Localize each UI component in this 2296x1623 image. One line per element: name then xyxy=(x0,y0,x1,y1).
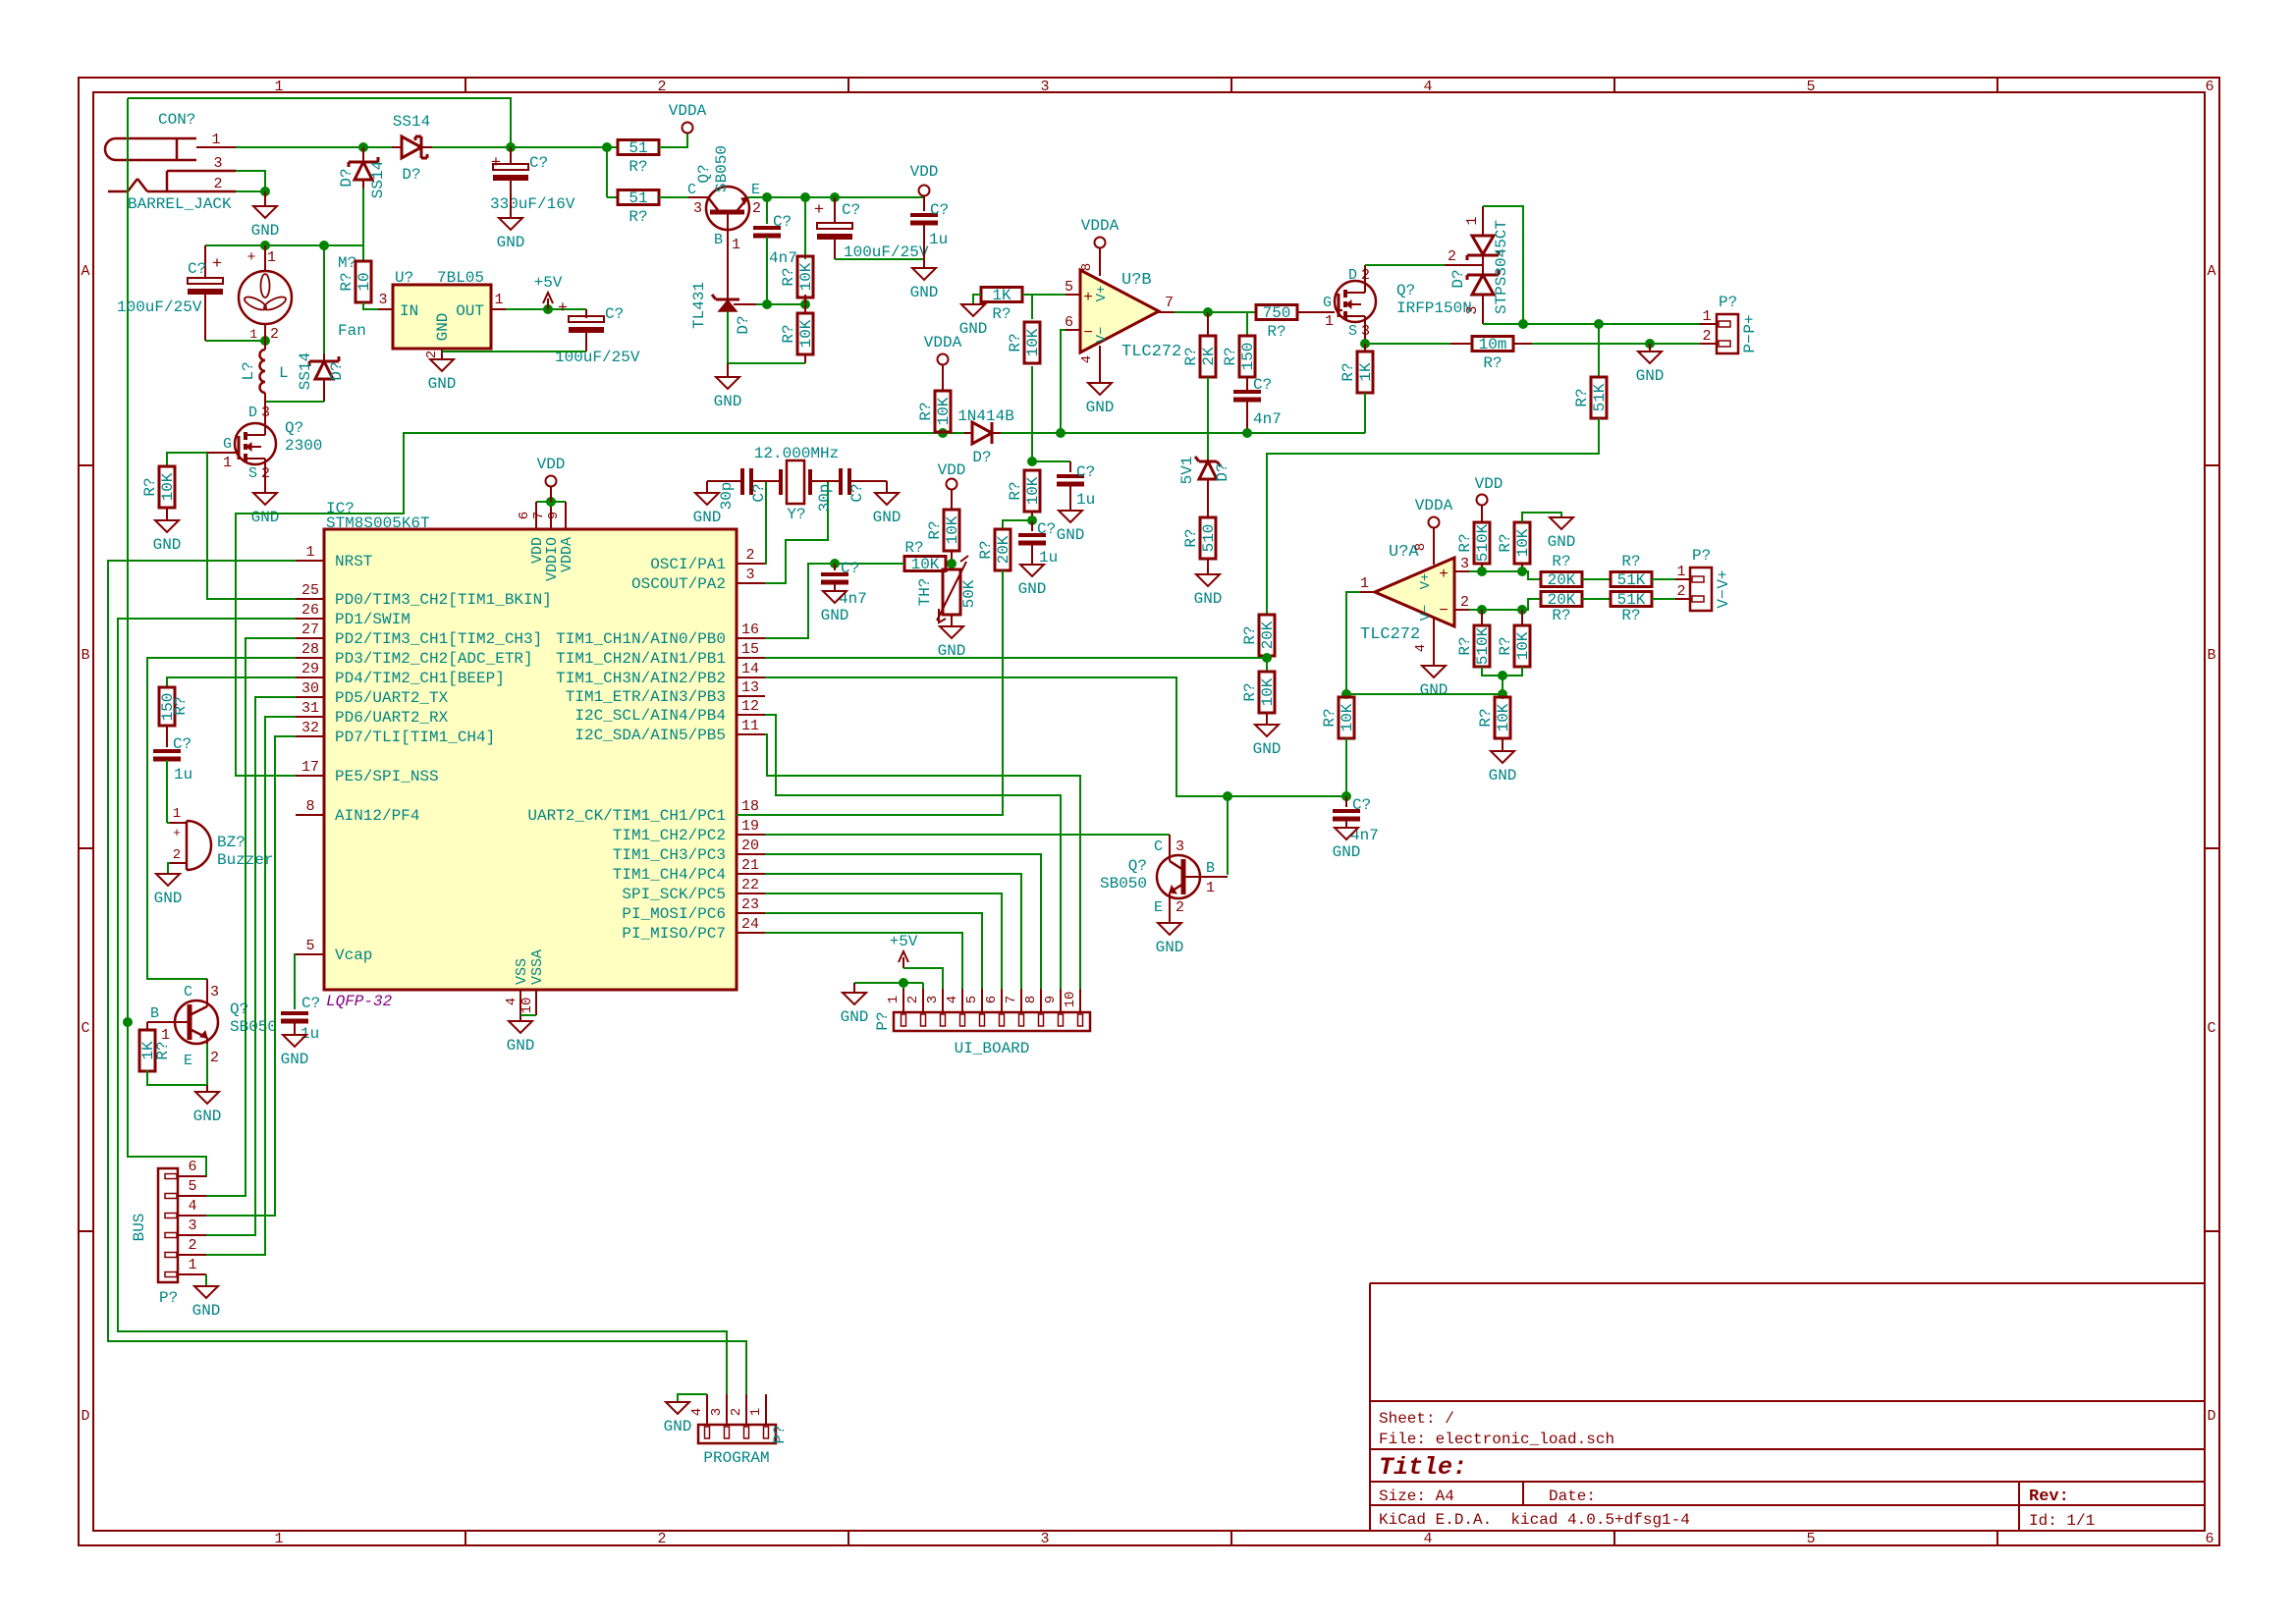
resistor R? 10K set filter xyxy=(1031,433,1033,461)
svg-text:TH?: TH? xyxy=(916,578,934,607)
svg-text:PD1/SWIM: PD1/SWIM xyxy=(335,611,410,628)
wire OSCI to crystal xyxy=(751,481,766,564)
connector P? PROGRAM xyxy=(698,1425,776,1443)
pin 6 UI_BOARD xyxy=(1001,989,1003,1012)
wire U?A output to feedback xyxy=(1346,592,1503,694)
svg-text:C: C xyxy=(687,182,696,198)
wire regulator output +5V xyxy=(506,308,586,310)
capacitor C? 1u filter xyxy=(1069,461,1071,472)
svg-text:GND: GND xyxy=(1333,843,1361,861)
pin 11 I2C_SDA/AIN5/PB5 xyxy=(737,733,765,735)
svg-text:Fan: Fan xyxy=(338,322,366,340)
wire shunt to P- pin xyxy=(1532,343,1700,345)
frame column ticks xyxy=(465,78,466,92)
capacitor C? 100uF/25V output xyxy=(585,309,587,318)
ground sense cap xyxy=(823,591,847,603)
svg-text:E: E xyxy=(1154,899,1163,916)
resistor R? 10K upper divider xyxy=(804,197,806,259)
svg-text:2: 2 xyxy=(1448,248,1456,265)
motor M? Fan xyxy=(239,271,292,324)
pin 26 PD1/SWIM xyxy=(296,618,324,620)
ground 10K upper xyxy=(1522,513,1561,522)
wire source to sense xyxy=(1364,322,1366,344)
ground Q2300 source xyxy=(264,464,266,493)
svg-text:750: 750 xyxy=(1263,304,1291,322)
node rail-cap junction xyxy=(506,142,516,152)
svg-text:D?: D? xyxy=(402,166,420,184)
zener D? 5V1 clamp xyxy=(1199,460,1217,463)
svg-text:51K: 51K xyxy=(1617,571,1646,589)
ground filter cap xyxy=(1069,485,1071,511)
svg-text:P?: P? xyxy=(1719,294,1737,311)
svg-text:C?: C? xyxy=(848,483,866,502)
svg-text:I2C_SDA/AIN5/PB5: I2C_SDA/AIN5/PB5 xyxy=(574,727,726,744)
svg-text:6: 6 xyxy=(517,512,532,519)
pin 29 PD4/TIM2_CH1[BEEP] xyxy=(296,676,324,678)
svg-text:C?: C? xyxy=(1037,520,1056,538)
ground UI board xyxy=(853,983,855,993)
wire pin3 net xyxy=(1469,571,1541,579)
pin 3 BUS xyxy=(178,1234,206,1236)
wire 51K to U?A divider xyxy=(1267,418,1599,615)
svg-text:25: 25 xyxy=(301,582,319,599)
svg-text:3: 3 xyxy=(693,200,702,217)
svg-text:D?: D? xyxy=(328,361,346,380)
svg-text:29: 29 xyxy=(301,661,319,677)
svg-text:+5V: +5V xyxy=(534,274,563,292)
svg-text:10K: 10K xyxy=(911,556,940,573)
pin 3 PROGRAM xyxy=(726,1394,728,1425)
svg-text:IN: IN xyxy=(400,302,418,320)
node 10K junction upper xyxy=(1517,567,1527,576)
svg-text:1N414B: 1N414B xyxy=(957,407,1014,425)
svg-text:UART2_CK/TIM1_CH1/PC1: UART2_CK/TIM1_CH1/PC1 xyxy=(527,807,726,825)
wire UI pin4 from pin24 xyxy=(765,933,962,989)
wire 20K to pin18 xyxy=(737,570,1003,815)
svg-text:File: electronic_load.sch: File: electronic_load.sch xyxy=(1379,1431,1614,1448)
svg-text:7: 7 xyxy=(1004,996,1019,1003)
wire UI pin10 from pin11 xyxy=(765,734,1080,989)
svg-text:P+: P+ xyxy=(1741,314,1759,333)
svg-text:13: 13 xyxy=(741,679,759,696)
svg-text:17: 17 xyxy=(301,759,319,776)
wire drain node xyxy=(265,401,324,403)
ground buzzer driver xyxy=(206,1085,208,1092)
ground set filter cap xyxy=(1020,565,1044,576)
node base drive junction xyxy=(1223,791,1232,801)
svg-text:TIM1_CH3/PC3: TIM1_CH3/PC3 xyxy=(613,846,726,864)
MCU bottom power pins 4 10 xyxy=(519,990,521,1021)
svg-text:STM8S005K6T: STM8S005K6T xyxy=(326,514,430,532)
svg-text:VDDA: VDDA xyxy=(924,334,962,352)
pin 17 PE5/SPI_NSS xyxy=(296,775,324,777)
svg-text:C: C xyxy=(2207,1020,2215,1037)
svg-text:GND: GND xyxy=(1253,740,1282,758)
resistor R? 10K output divider xyxy=(1495,697,1510,738)
svg-text:R?: R? xyxy=(917,402,935,420)
svg-text:PD5/UART2_TX: PD5/UART2_TX xyxy=(335,689,449,707)
svg-text:R?: R? xyxy=(977,540,995,559)
capacitor C? 30p left xyxy=(740,468,744,495)
svg-text:GND: GND xyxy=(1636,367,1665,385)
svg-text:510: 510 xyxy=(1200,524,1218,553)
svg-text:C?: C? xyxy=(842,201,860,219)
node 4n7 junction xyxy=(762,192,772,202)
resistor R? 510 xyxy=(1200,517,1216,559)
svg-text:6: 6 xyxy=(1065,314,1073,331)
wire main input rail y150 xyxy=(236,146,363,148)
svg-text:VDD: VDD xyxy=(910,163,939,181)
svg-text:GND: GND xyxy=(714,393,742,410)
node comp rail junction xyxy=(1242,428,1252,438)
svg-text:50K: 50K xyxy=(960,579,978,608)
svg-text:10: 10 xyxy=(519,998,535,1014)
svg-text:R?: R? xyxy=(1621,553,1640,570)
svg-text:B: B xyxy=(150,1005,159,1022)
wire PD7 to BUS pin4 xyxy=(178,736,296,1216)
node VDDA pullup junction xyxy=(938,428,948,438)
transistor Q? SB050 pass xyxy=(706,187,749,230)
node 10K junction lower xyxy=(1517,605,1527,615)
buzzer BZ? xyxy=(167,822,170,824)
svg-text:GND: GND xyxy=(959,320,988,338)
svg-text:C?: C? xyxy=(605,305,624,323)
svg-text:R?: R? xyxy=(154,1041,172,1059)
svg-text:1: 1 xyxy=(305,544,314,561)
svg-text:R?: R? xyxy=(141,477,159,496)
wire pin15 net xyxy=(765,657,1267,659)
power VDDA top xyxy=(683,123,693,134)
svg-text:3: 3 xyxy=(1040,79,1049,95)
svg-text:P?: P? xyxy=(1692,547,1711,565)
svg-text:A: A xyxy=(2207,263,2215,280)
svg-text:+: + xyxy=(1083,289,1093,306)
svg-text:GND: GND xyxy=(1548,533,1576,551)
svg-text:10K: 10K xyxy=(1495,703,1512,731)
capacitor C? 1u Vcap xyxy=(295,954,296,1009)
ground buzzer xyxy=(168,863,170,874)
svg-text:11: 11 xyxy=(741,718,759,734)
svg-text:L?: L? xyxy=(240,361,257,380)
svg-text:5: 5 xyxy=(1806,1531,1815,1547)
svg-text:8: 8 xyxy=(305,798,314,815)
resistor R? 10K lower minus xyxy=(1521,610,1523,625)
svg-text:R?: R? xyxy=(904,539,923,557)
pin 22 SPI_SCK/PC5 xyxy=(737,893,765,894)
svg-text:1u: 1u xyxy=(1076,491,1095,509)
svg-text:PROGRAM: PROGRAM xyxy=(703,1449,769,1467)
svg-text:1: 1 xyxy=(173,806,181,822)
capacitor C? 100uF/25V fan xyxy=(204,245,206,278)
svg-text:1K: 1K xyxy=(1357,362,1375,382)
svg-text:3: 3 xyxy=(709,1408,725,1416)
svg-text:R?: R? xyxy=(1267,323,1285,341)
MCU top power pins 6 7 9 xyxy=(536,501,566,503)
ground MCU VSS xyxy=(509,1021,532,1033)
svg-text:TIM1_CH2N/AIN1/PB1: TIM1_CH2N/AIN1/PB1 xyxy=(556,650,726,668)
ground pin15 divider xyxy=(1266,713,1268,725)
capacitor C? 1u VDD xyxy=(923,197,925,211)
svg-text:Vcap: Vcap xyxy=(335,947,372,964)
svg-text:SS14: SS14 xyxy=(369,161,387,198)
svg-text:7: 7 xyxy=(1165,295,1174,311)
ground PROGRAM pin4 xyxy=(678,1394,707,1402)
capacitor C? 100uF/25V VDD xyxy=(834,197,836,223)
svg-text:PD2/TIM3_CH1[TIM2_CH3]: PD2/TIM3_CH1[TIM2_CH3] xyxy=(335,630,542,648)
svg-text:C?: C? xyxy=(750,483,768,502)
shunt regulator D? TL431 xyxy=(727,232,729,299)
svg-text:8: 8 xyxy=(1413,543,1429,551)
svg-text:1: 1 xyxy=(1702,308,1711,325)
pin 2 OSCI/PA1 xyxy=(737,563,765,565)
resistor R? 10 series xyxy=(355,261,371,302)
svg-text:C?: C? xyxy=(529,154,548,172)
svg-text:GND: GND xyxy=(153,536,182,554)
resistor R? 20K sense plus xyxy=(1541,572,1582,587)
svg-text:28: 28 xyxy=(301,641,319,658)
svg-text:VSSA: VSSA xyxy=(529,949,546,985)
wire base resistor to emitter xyxy=(147,1070,207,1085)
node UI ground junction xyxy=(899,978,908,988)
svg-text:21: 21 xyxy=(741,857,759,874)
ground opamp input cap xyxy=(1335,828,1358,839)
wire 1K to pin5 xyxy=(1022,294,1066,296)
svg-text:V+: V+ xyxy=(1715,569,1732,588)
svg-text:GND: GND xyxy=(497,234,525,251)
svg-text:+5V: +5V xyxy=(890,933,918,950)
svg-text:VDD: VDD xyxy=(537,456,566,473)
svg-text:6: 6 xyxy=(984,996,1000,1003)
svg-text:TIM1_ETR/AIN3/PB3: TIM1_ETR/AIN3/PB3 xyxy=(566,688,726,706)
svg-text:PE5/SPI_NSS: PE5/SPI_NSS xyxy=(335,768,439,785)
svg-text:C: C xyxy=(81,1020,89,1037)
wire drain to schottky xyxy=(1364,265,1366,281)
capacitor C? 4n7 base xyxy=(766,197,768,224)
svg-text:E: E xyxy=(184,1053,192,1069)
svg-text:4: 4 xyxy=(188,1198,196,1215)
svg-text:GND: GND xyxy=(1194,590,1223,608)
svg-text:4: 4 xyxy=(1423,79,1432,95)
svg-text:3: 3 xyxy=(188,1217,196,1234)
svg-text:30p: 30p xyxy=(816,484,834,513)
svg-text:D?: D? xyxy=(338,168,355,187)
svg-text:2: 2 xyxy=(752,200,761,217)
svg-text:VDD: VDD xyxy=(938,461,966,479)
svg-text:10K: 10K xyxy=(797,319,815,348)
capacitor C? 30p right xyxy=(810,480,841,482)
wire PD5 to BUS pin3 xyxy=(178,697,296,1235)
svg-text:4: 4 xyxy=(1413,644,1429,652)
svg-text:Date:: Date: xyxy=(1549,1488,1596,1505)
svg-text:GND: GND xyxy=(192,1302,221,1320)
svg-text:+: + xyxy=(246,249,255,266)
svg-text:4: 4 xyxy=(1079,355,1095,363)
regulator U? 7BL05 xyxy=(393,285,491,349)
svg-text:C?: C? xyxy=(930,201,949,219)
svg-text:51: 51 xyxy=(629,189,647,207)
svg-text:B: B xyxy=(714,232,723,248)
resistor R? 10K thermistor divider xyxy=(944,510,959,551)
svg-text:R?: R? xyxy=(780,267,797,286)
svg-text:150: 150 xyxy=(1239,343,1257,371)
pin 6 BUS xyxy=(178,1175,206,1177)
node thermistor junction xyxy=(947,559,957,568)
wire 51 lower to Q collector xyxy=(659,196,688,198)
wire UI ground xyxy=(854,982,923,984)
transistor Q? SB050 buzzer driver xyxy=(175,1001,218,1044)
resistor R? 150 comp xyxy=(1208,312,1247,336)
wire UI pin9 from pin12 xyxy=(765,715,1061,989)
wire PE5 control rail xyxy=(236,433,943,776)
svg-text:1: 1 xyxy=(274,1531,283,1547)
resistor R? 20K set divider xyxy=(1003,520,1032,529)
svg-text:4: 4 xyxy=(1423,1531,1432,1547)
ground Vcap xyxy=(283,1035,306,1047)
pin 8 AIN12/PF4 xyxy=(296,814,324,816)
resistor R? 1K base xyxy=(146,1022,148,1031)
power VDDA rail pullup xyxy=(938,354,949,365)
wire TL431 anode to divider bottom xyxy=(728,362,805,364)
resistor R? 2K clamp xyxy=(1207,312,1209,336)
connector P? P+/P- output xyxy=(1717,314,1738,353)
resistor R? 510K upper plus xyxy=(1474,522,1490,564)
svg-text:26: 26 xyxy=(301,602,319,619)
svg-text:1K: 1K xyxy=(992,287,1011,304)
svg-text:TIM1_CH1N/AIN0/PB0: TIM1_CH1N/AIN0/PB0 xyxy=(556,630,726,648)
svg-text:10K: 10K xyxy=(935,397,953,425)
wire pin14 node xyxy=(765,677,1346,796)
wire UI pin6 from pin22 xyxy=(765,893,1002,989)
svg-text:5V1: 5V1 xyxy=(1178,457,1196,485)
svg-text:AIN12/PF4: AIN12/PF4 xyxy=(335,807,419,825)
node sense cap junction xyxy=(830,559,840,568)
svg-text:4: 4 xyxy=(689,1408,705,1416)
inductor L? xyxy=(260,350,266,393)
svg-text:10K: 10K xyxy=(1024,476,1042,505)
svg-text:4n7: 4n7 xyxy=(769,249,797,267)
wire schottky parallel loop xyxy=(1483,206,1523,324)
svg-text:GND: GND xyxy=(428,375,457,393)
node opamp input junction xyxy=(1341,791,1351,801)
svg-text:SB050: SB050 xyxy=(713,145,731,192)
wire filter R to cap xyxy=(1031,366,1033,461)
svg-text:R?: R? xyxy=(1552,607,1570,624)
svg-text:7: 7 xyxy=(531,512,547,519)
connector P? BUS xyxy=(158,1168,178,1282)
diode D? SS14 freewheel xyxy=(323,245,325,353)
svg-text:STPS3045CT: STPS3045CT xyxy=(1493,220,1510,314)
ground TL431 xyxy=(727,363,729,377)
svg-text:1: 1 xyxy=(748,1408,764,1416)
svg-text:VSS: VSS xyxy=(514,958,530,985)
svg-text:M?: M? xyxy=(338,254,356,272)
node P- ground junction xyxy=(1645,339,1655,349)
wire jack pin3 to pin2 node xyxy=(236,171,265,191)
thermistor TH? 50K xyxy=(943,569,960,615)
svg-text:C?: C? xyxy=(1352,796,1371,814)
svg-text:R?: R? xyxy=(1456,533,1474,552)
svg-text:I2C_SCL/AIN4/PB4: I2C_SCL/AIN4/PB4 xyxy=(574,707,726,725)
svg-text:E: E xyxy=(751,182,760,198)
svg-text:2: 2 xyxy=(657,79,666,95)
svg-text:10K: 10K xyxy=(1259,677,1277,706)
ground 330uF cap xyxy=(510,178,512,218)
svg-text:16: 16 xyxy=(741,622,759,638)
node rail-51 junction xyxy=(602,142,612,152)
transistor Q? SB050 right xyxy=(1157,855,1200,898)
svg-text:G: G xyxy=(223,436,232,453)
svg-text:V−: V− xyxy=(1094,327,1110,344)
svg-text:3: 3 xyxy=(1464,305,1481,314)
node feedback junction xyxy=(1498,671,1507,680)
svg-text:10K: 10K xyxy=(1339,703,1356,731)
svg-text:V+: V+ xyxy=(1418,573,1434,590)
svg-text:+: + xyxy=(558,299,568,318)
svg-text:10: 10 xyxy=(355,272,373,291)
wire output cap to regulator ground xyxy=(585,330,587,352)
svg-text:TIM1_CH2/PC2: TIM1_CH2/PC2 xyxy=(613,827,726,844)
svg-text:GND: GND xyxy=(251,509,280,526)
pin 13 TIM1_ETR/AIN3/PB3 xyxy=(737,695,765,697)
pin 5 Vcap xyxy=(296,953,324,955)
node fan top junction xyxy=(260,241,270,250)
node output-2K junction xyxy=(1203,307,1213,317)
svg-text:B: B xyxy=(1206,860,1215,877)
svg-text:B: B xyxy=(2207,647,2215,664)
svg-text:2: 2 xyxy=(424,351,440,358)
svg-text:51: 51 xyxy=(629,139,647,157)
pin 1 NRST xyxy=(296,560,324,562)
svg-text:BUS: BUS xyxy=(131,1214,148,1242)
svg-text:R?: R? xyxy=(1477,708,1495,727)
svg-text:20: 20 xyxy=(741,838,759,854)
svg-text:R?: R? xyxy=(780,324,797,343)
svg-text:2: 2 xyxy=(188,1237,196,1254)
svg-text:4n7: 4n7 xyxy=(1253,410,1282,428)
svg-text:GND: GND xyxy=(193,1108,222,1125)
svg-text:+: + xyxy=(1439,566,1449,583)
pin 9 UI_BOARD xyxy=(1060,989,1062,1012)
svg-text:TLC272: TLC272 xyxy=(1121,343,1181,361)
svg-text:1: 1 xyxy=(211,132,220,148)
node output 10K junction xyxy=(1341,689,1351,699)
capacitor C? 4n7 sense xyxy=(834,564,836,570)
svg-text:8: 8 xyxy=(1079,263,1095,271)
svg-text:R?: R? xyxy=(629,208,647,226)
resistor R? 10K to input cap xyxy=(1339,697,1354,738)
svg-text:LQFP-32: LQFP-32 xyxy=(326,993,393,1010)
connector P? UI_BOARD xyxy=(894,1012,1090,1031)
svg-text:GND: GND xyxy=(281,1051,309,1068)
node 510K junction lower xyxy=(1477,605,1487,615)
svg-text:R?: R? xyxy=(629,158,647,176)
svg-text:R?: R? xyxy=(338,272,355,291)
svg-text:330uF/16V: 330uF/16V xyxy=(490,195,575,213)
svg-text:Title:: Title: xyxy=(1379,1453,1467,1482)
wire D? to R10 node xyxy=(362,189,364,261)
pin 1 BUS xyxy=(178,1273,206,1275)
svg-text:C: C xyxy=(184,984,192,1001)
svg-text:10K: 10K xyxy=(1024,328,1042,356)
svg-text:100uF/25V: 100uF/25V xyxy=(117,298,202,316)
svg-text:20K: 20K xyxy=(1259,621,1277,649)
pin 10 UI_BOARD xyxy=(1079,989,1081,1012)
svg-text:31: 31 xyxy=(301,700,319,717)
svg-text:C?: C? xyxy=(1253,376,1272,394)
svg-text:5: 5 xyxy=(964,996,980,1003)
svg-text:1u: 1u xyxy=(929,231,948,248)
svg-text:Q?: Q? xyxy=(285,419,303,437)
